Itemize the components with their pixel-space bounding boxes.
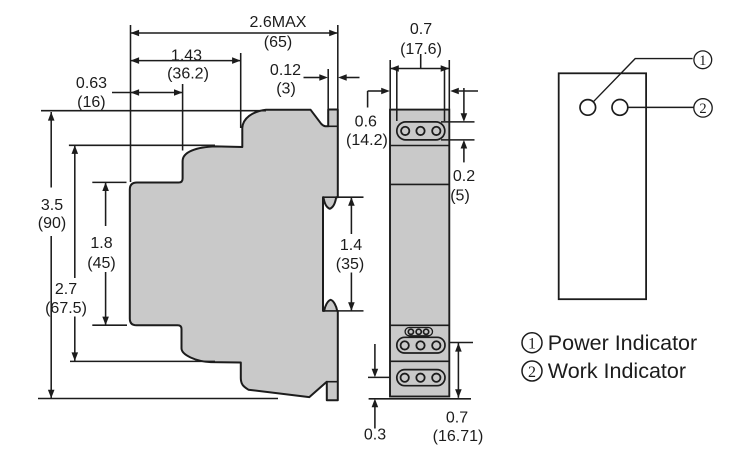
svg-text:1.8: 1.8 [90,235,112,252]
dimension 0.6 (14.2) [368,90,382,92]
dimension 1.8 (45) [105,182,107,226]
2.7 top extension line [69,144,215,146]
dimension 0.63 (16) [112,92,183,94]
svg-text:Power Indicator: Power Indicator [548,331,697,355]
right extension line x=337.7 [337,25,339,109]
svg-text:2: 2 [528,364,536,381]
side view body profile [130,110,338,401]
leader line to 1 [593,59,692,102]
dimension 0.7 (16.71) [450,342,474,344]
1.8 top extension line [92,181,126,183]
svg-text:0.7: 0.7 [410,21,432,38]
dimension 0.12 (3) [304,77,320,79]
svg-text:1: 1 [699,53,706,69]
front view body [390,110,449,397]
bottom tab internal line [327,381,338,383]
top reference line (3.5 top) [41,110,266,112]
dimension 2.7 (67.5) [74,145,76,278]
top tab internal line [328,125,338,127]
dimension 0.7 (17.6) [389,60,391,109]
svg-text:0.63: 0.63 [76,75,107,92]
small connector row [405,328,432,336]
svg-text:(67.5): (67.5) [45,300,87,317]
middle terminal block [397,337,445,353]
bottom terminal block [397,370,445,386]
dimension 3.5 (90) [50,112,52,188]
0.12 left extension line [327,69,329,109]
svg-text:1.43: 1.43 [171,47,202,64]
circled 1 callout [694,51,712,69]
svg-text:(45): (45) [87,255,115,272]
indicator panel rectangle [559,73,646,299]
top terminal block [397,122,445,140]
svg-text:(16.71): (16.71) [433,428,484,445]
dimension 2.6MAX (65) [131,32,338,34]
bottom reference line right segment [369,398,471,400]
svg-text:1.4: 1.4 [340,237,362,254]
dimension 0.3 [368,376,390,378]
2.7 bottom extension line [70,360,215,362]
svg-text:(90): (90) [38,215,66,232]
dimension 0.2 (5) [441,121,475,123]
front view section line 4 [390,360,449,362]
svg-text:(14.2): (14.2) [346,132,388,149]
0.63 right extension line [182,84,184,151]
svg-text:0.6: 0.6 [355,113,377,130]
svg-text:2: 2 [699,101,706,117]
front view section line 1 [390,145,449,147]
svg-text:0.3: 0.3 [364,426,386,443]
svg-text:Work Indicator: Work Indicator [548,359,686,383]
bottom reference line [38,398,278,400]
1.43 right extension line [240,53,242,128]
svg-text:0.12: 0.12 [270,62,301,79]
svg-text:2.6MAX: 2.6MAX [250,14,307,31]
svg-text:(5): (5) [450,187,470,204]
svg-text:(65): (65) [264,34,292,51]
lower hook base line [323,310,338,312]
legend circled 1 [522,333,542,353]
indicator LED 1 [580,100,596,116]
svg-text:3.5: 3.5 [41,197,63,214]
indicator LED 2 [612,100,628,116]
svg-text:0.7: 0.7 [446,409,468,426]
svg-text:(35): (35) [336,256,364,273]
front view section line 2 [390,183,449,185]
svg-text:0.2: 0.2 [453,168,475,185]
leader line to 2 [628,106,694,108]
svg-text:(17.6): (17.6) [400,41,442,58]
front view section line 3 [390,324,449,326]
left shared extension line x=130.5 [130,25,132,182]
svg-text:(3): (3) [276,80,296,97]
svg-text:1: 1 [528,336,536,353]
dimension 1.4 (35) [338,196,364,198]
svg-text:(16): (16) [77,94,105,111]
upper hook base line [323,196,338,198]
1.8 bottom extension line [92,324,127,326]
svg-text:(36.2): (36.2) [167,66,209,83]
circled 2 callout [694,99,712,117]
svg-text:2.7: 2.7 [55,281,77,298]
dimension 1.43 (36.2) [131,60,241,62]
legend circled 2 [522,361,542,381]
